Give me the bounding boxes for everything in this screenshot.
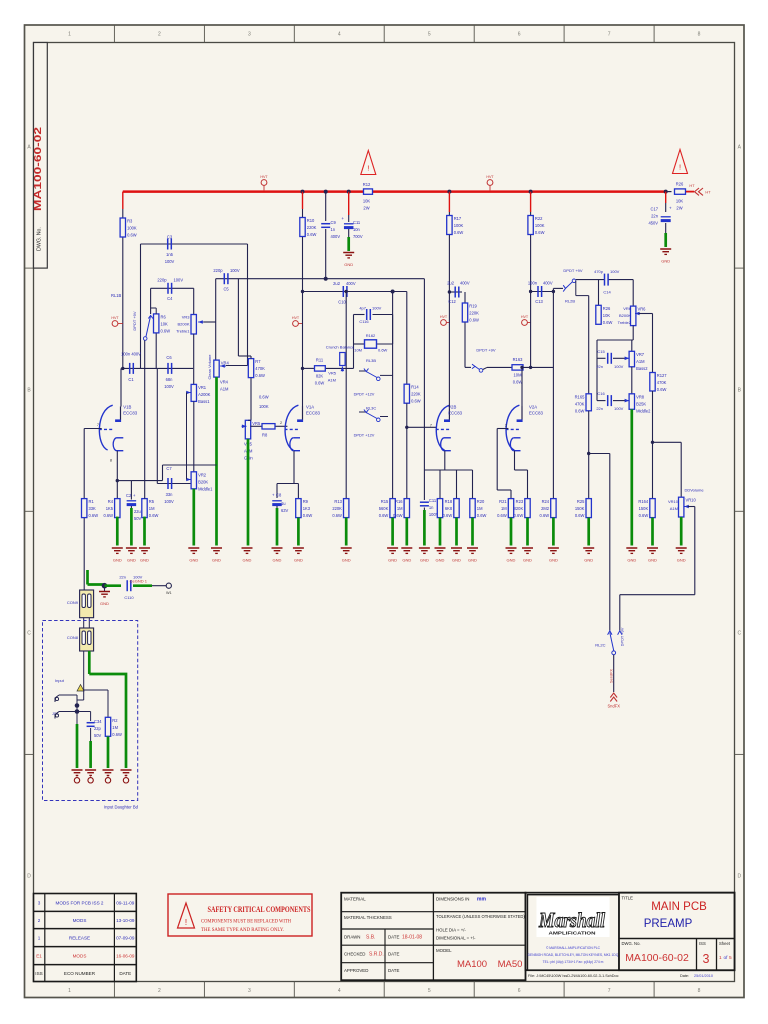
svg-text:C110: C110 xyxy=(124,595,134,600)
svg-text:470K: 470K xyxy=(255,366,265,371)
svg-text:0.6W: 0.6W xyxy=(469,318,479,323)
svg-text:220K: 220K xyxy=(469,311,479,316)
svg-text:B25K: B25K xyxy=(636,401,646,406)
wires CON9 to CON8 xyxy=(83,618,85,628)
svg-text:Date:: Date: xyxy=(680,974,689,978)
svg-text:C11: C11 xyxy=(353,220,361,225)
svg-text:GND: GND xyxy=(523,558,532,563)
wire: grid rail x=84.2 down to input connector xyxy=(83,429,85,499)
wire: C6 line y=368.4 xyxy=(157,367,193,369)
svg-text:3: 3 xyxy=(248,988,251,994)
svg-text:7: 7 xyxy=(608,988,611,994)
svg-text:1: 1 xyxy=(719,955,722,961)
wire: C13 line y=291.5 xyxy=(529,290,532,293)
resistor R20 1M 0.6W xyxy=(470,499,475,518)
svg-text:R9: R9 xyxy=(303,499,309,504)
svg-text:R5: R5 xyxy=(149,499,155,504)
svg-text:1M: 1M xyxy=(501,506,507,511)
svg-text:GND: GND xyxy=(677,558,686,563)
potentiometer VR7 A1M Bass2 xyxy=(629,351,634,367)
svg-text:Bass1: Bass1 xyxy=(198,399,210,404)
ground at CeGND node xyxy=(104,588,106,591)
svg-text:R7: R7 xyxy=(255,359,261,364)
svg-text:1: 1 xyxy=(68,31,71,37)
svg-text:VR10: VR10 xyxy=(668,499,679,504)
svg-text:S.B.: S.B. xyxy=(366,935,375,941)
svg-text:!: ! xyxy=(367,164,369,173)
resistor R15 560K 0.6W grid leak xyxy=(392,292,394,499)
red bus drop stubs xyxy=(122,192,124,209)
svg-text:10M: 10M xyxy=(514,373,523,378)
svg-text:100V: 100V xyxy=(174,278,184,283)
svg-text:33n: 33n xyxy=(166,492,174,497)
svg-text:6: 6 xyxy=(518,31,521,37)
green wire below R25 xyxy=(587,518,590,546)
svg-text:MATERIAL THICKNESS: MATERIAL THICKNESS xyxy=(344,915,392,920)
ground below R25 xyxy=(583,547,594,549)
svg-text:8: 8 xyxy=(110,459,112,463)
svg-text:B200K: B200K xyxy=(177,322,189,327)
svg-text:6: 6 xyxy=(518,988,521,994)
svg-text:PREAMP: PREAMP xyxy=(644,918,693,930)
grounds below V1B cathode parts xyxy=(112,547,123,549)
svg-text:16-06-09: 16-06-09 xyxy=(116,953,135,958)
svg-text:0.6W: 0.6W xyxy=(89,513,99,518)
svg-text:0.6W: 0.6W xyxy=(477,513,487,518)
svg-text:R127: R127 xyxy=(657,373,668,378)
DWG number sidebar box xyxy=(34,43,48,269)
svg-text:220K: 220K xyxy=(307,225,317,230)
svg-text:W1: W1 xyxy=(166,591,172,595)
svg-text:MODS: MODS xyxy=(73,953,87,958)
svg-text:GND: GND xyxy=(584,558,593,563)
triode V1A ECC83 xyxy=(285,405,298,450)
svg-text:DRAWN: DRAWN xyxy=(344,935,360,940)
svg-text:100K: 100K xyxy=(535,223,545,228)
resistor R17 100K 0.6W xyxy=(447,216,452,235)
svg-text:1u: 1u xyxy=(281,501,286,506)
svg-text:ISS: ISS xyxy=(699,941,706,946)
svg-text:MA100-60-02: MA100-60-02 xyxy=(625,952,689,964)
svg-text:GND: GND xyxy=(273,558,282,563)
svg-text:C17: C17 xyxy=(650,207,658,212)
svg-text:1K5: 1K5 xyxy=(106,506,114,511)
svg-text:560K: 560K xyxy=(379,506,389,511)
svg-text:DPDT +9V: DPDT +9V xyxy=(132,311,137,330)
svg-text:0.6W: 0.6W xyxy=(454,230,464,235)
wire: FX send from R165 node xyxy=(589,453,610,455)
svg-text:TOLERANCE (UNLESS OTHERWISE ST: TOLERANCE (UNLESS OTHERWISE STATED) xyxy=(436,914,525,919)
wire: V1A cathode network xyxy=(293,451,295,484)
svg-text:100n 400V: 100n 400V xyxy=(121,352,141,357)
svg-text:MODS: MODS xyxy=(73,918,87,923)
svg-text:RL3C: RL3C xyxy=(366,406,376,411)
svg-text:50V: 50V xyxy=(94,733,102,738)
svg-text:VR5: VR5 xyxy=(252,421,261,426)
svg-text:© MARSHALL AMPLIFICATION PLC: © MARSHALL AMPLIFICATION PLC xyxy=(546,946,601,950)
svg-text:C4: C4 xyxy=(167,296,173,301)
capacitor C1 100n 400V xyxy=(123,367,158,369)
wire: C5 line y=278.7 long mixer wire xyxy=(216,278,425,280)
green wire below VR5 xyxy=(247,439,250,546)
svg-text:S.R.D.: S.R.D. xyxy=(369,952,384,958)
svg-text:8: 8 xyxy=(698,988,701,994)
svg-text:VR6: VR6 xyxy=(623,306,632,311)
svg-text:HOLE DIA = +/-: HOLE DIA = +/- xyxy=(436,928,466,933)
svg-text:R4: R4 xyxy=(108,499,114,504)
svg-text:DPDT +12V: DPDT +12V xyxy=(354,392,375,397)
svg-text:DIMENSIONS IN: DIMENSIONS IN xyxy=(436,897,469,902)
svg-text:C13: C13 xyxy=(535,299,543,304)
svg-text:2u2: 2u2 xyxy=(447,281,455,286)
svg-text:400V: 400V xyxy=(543,281,553,286)
svg-text:CON8: CON8 xyxy=(67,635,79,640)
green wire to ground below C17 xyxy=(664,233,667,247)
svg-text:5: 5 xyxy=(428,31,431,37)
svg-text:470K: 470K xyxy=(575,401,585,406)
svg-text:7: 7 xyxy=(430,424,432,428)
svg-text:ISS: ISS xyxy=(35,971,42,976)
capacitor C3 1n5 100V xyxy=(167,239,169,250)
wire: V2B grid wire xyxy=(407,426,437,428)
resistor R5 1M 0.6W xyxy=(142,499,147,518)
svg-text:0.6W: 0.6W xyxy=(161,328,171,333)
green wire below R164 xyxy=(651,518,654,546)
svg-text:DATE: DATE xyxy=(119,971,131,976)
svg-text:C9: C9 xyxy=(331,220,337,225)
svg-text:MATERIAL: MATERIAL xyxy=(344,897,366,902)
svg-text:0.6W: 0.6W xyxy=(127,233,137,238)
svg-text:R165: R165 xyxy=(575,394,586,399)
svg-text:R1: R1 xyxy=(89,499,95,504)
triode V2A ECC83 xyxy=(506,405,519,450)
svg-text:0.6W: 0.6W xyxy=(443,513,453,518)
svg-text:C6: C6 xyxy=(166,355,172,360)
svg-text:DPDT +9V: DPDT +9V xyxy=(620,627,625,646)
svg-text:VR4: VR4 xyxy=(221,361,230,366)
svg-text:D: D xyxy=(737,874,741,880)
svg-text:2: 2 xyxy=(38,918,41,923)
svg-text:R14: R14 xyxy=(411,385,419,390)
svg-text:Marshall: Marshall xyxy=(538,908,605,932)
svg-text:ECC83: ECC83 xyxy=(123,410,137,415)
svg-text:GND: GND xyxy=(113,558,122,563)
capacitor C12 2u2 400V xyxy=(454,287,456,298)
svg-text:18-01-08: 18-01-08 xyxy=(402,935,422,941)
wire: C3 top coupling line y=244 xyxy=(141,243,248,245)
svg-text:4: 4 xyxy=(338,988,341,994)
connector CON8 xyxy=(80,628,94,651)
svg-text:10K: 10K xyxy=(363,199,371,204)
capacitor C5 220p 100V xyxy=(223,273,225,284)
revision table xyxy=(34,894,137,982)
svg-text:COMPONENTS MUST BE REPLACED WI: COMPONENTS MUST BE REPLACED WITH xyxy=(201,919,291,925)
resistor R9 1K3 0.6W xyxy=(296,499,301,518)
capacitor C110 22n 100V xyxy=(126,580,128,591)
svg-text:0.6W: 0.6W xyxy=(307,232,317,237)
svg-text:100V: 100V xyxy=(165,259,175,264)
svg-text:Treble2: Treble2 xyxy=(618,320,632,325)
svg-text:HVT: HVT xyxy=(486,175,494,179)
ground below R164 xyxy=(647,547,658,549)
svg-text:TEL: phl (44p) 1734+1 Fax: p(4: TEL: phl (44p) 1734+1 Fax: p(44p) 274 m xyxy=(543,960,604,964)
svg-text:1M: 1M xyxy=(149,506,155,511)
svg-text:4p7: 4p7 xyxy=(359,306,366,311)
svg-text:R22: R22 xyxy=(535,216,543,221)
svg-text:Input: Input xyxy=(55,678,65,683)
svg-text:22u: 22u xyxy=(134,509,141,514)
resistor R26 (bus end, 10K 2W) xyxy=(675,189,686,194)
svg-text:100V: 100V xyxy=(372,306,382,311)
svg-text:0.6W: 0.6W xyxy=(639,513,649,518)
svg-text:2u2: 2u2 xyxy=(333,281,341,286)
svg-text:C2: C2 xyxy=(126,493,132,498)
svg-text:DPDT +9V: DPDT +9V xyxy=(476,348,495,353)
wire: C10 coupling line y=291.5 xyxy=(303,291,407,293)
file path strip xyxy=(526,969,735,971)
resistor R117 1M8 0.6W xyxy=(437,499,442,518)
svg-text:400V: 400V xyxy=(331,234,341,239)
resistor R164 150K 0.6W xyxy=(650,499,655,518)
svg-text:!: ! xyxy=(679,163,681,172)
svg-text:22n: 22n xyxy=(119,575,126,580)
resistor R13 220K 0.6W xyxy=(344,499,349,518)
capacitor C13 100n 400V xyxy=(537,286,539,297)
grounds below V2B network xyxy=(387,547,398,549)
safety critical components box xyxy=(168,894,312,936)
resistor R16 1M 0.6W xyxy=(404,499,409,518)
svg-text:Crunch Balance: Crunch Balance xyxy=(326,345,355,350)
resistor R22 100K 0.6W xyxy=(530,212,532,216)
svg-text:R2: R2 xyxy=(112,718,118,723)
resistor R12 (bus, 10K 2W) xyxy=(364,189,373,194)
svg-text:R10: R10 xyxy=(307,218,315,223)
resistor R127 470K 0.6W xyxy=(650,373,655,392)
svg-text:B20K: B20K xyxy=(198,479,208,484)
resistor R10 220K 0.6W xyxy=(302,209,304,218)
svg-text:150K: 150K xyxy=(575,506,585,511)
svg-text:0.6W: 0.6W xyxy=(411,399,421,404)
svg-text:100K: 100K xyxy=(454,223,464,228)
svg-text:GND: GND xyxy=(420,558,429,563)
svg-text:820K: 820K xyxy=(514,506,524,511)
svg-text:0.6W: 0.6W xyxy=(255,373,265,378)
wire: V1A plate rail xyxy=(302,292,304,408)
grounds below V1A cathode xyxy=(272,547,283,549)
svg-text:100V: 100V xyxy=(614,406,624,411)
ground below VR10 xyxy=(676,547,687,549)
green wires to input board earths xyxy=(76,724,79,768)
svg-text:1M: 1M xyxy=(112,725,118,730)
green wire below R13 xyxy=(345,518,348,546)
svg-text:100V: 100V xyxy=(164,384,174,389)
svg-text:V1B: V1B xyxy=(123,405,131,410)
svg-text:0.6W: 0.6W xyxy=(378,348,388,353)
svg-text:R162: R162 xyxy=(366,333,376,338)
svg-text:GND: GND xyxy=(127,558,136,563)
resistor R25 150K 0.6W xyxy=(588,411,590,454)
resistor R23 820K 0.6W xyxy=(525,499,530,518)
ground below C11 xyxy=(343,252,354,254)
bus junction dots xyxy=(301,190,305,194)
resistor R21 1M 0.6W xyxy=(508,499,513,518)
svg-text:R163: R163 xyxy=(513,357,524,362)
svg-text:0.6W: 0.6W xyxy=(379,513,389,518)
margin column/row tick marks xyxy=(113,25,115,43)
svg-text:7: 7 xyxy=(608,31,611,37)
resistor R165 470K 0.6W xyxy=(586,394,591,411)
wire: FX send output xyxy=(613,655,615,692)
svg-text:1M: 1M xyxy=(397,506,403,511)
capacitor C7 33n 100V xyxy=(167,478,169,489)
resistor R18 6K8 0.6W xyxy=(454,499,459,518)
svg-text:82K: 82K xyxy=(316,374,324,379)
ground below VR8 xyxy=(626,547,637,549)
resistor R14 220K 0.6W xyxy=(406,292,408,385)
svg-text:0.6W: 0.6W xyxy=(514,513,524,518)
svg-text:GND: GND xyxy=(661,259,670,264)
svg-text:0.6W: 0.6W xyxy=(535,230,545,235)
svg-text:400V: 400V xyxy=(460,281,470,286)
svg-text:50V: 50V xyxy=(134,516,142,521)
svg-text:GND: GND xyxy=(342,558,351,563)
green wires below V2A network xyxy=(510,518,513,546)
svg-text:5: 5 xyxy=(729,955,732,961)
potentiometer VR3 B200K Treble1 xyxy=(193,288,195,314)
capacitor C11 10n 700V (electrolytic) xyxy=(348,215,350,222)
svg-text:MA100: MA100 xyxy=(457,959,487,970)
svg-text:RL2B: RL2B xyxy=(565,299,575,304)
svg-text:R16: R16 xyxy=(395,499,403,504)
capacitor C4 220p 100V xyxy=(167,283,169,294)
green wire CON8 pin2 to earth xyxy=(88,651,91,674)
wire: x=553.4 rail down to R24 xyxy=(552,292,554,499)
svg-text:GND: GND xyxy=(549,558,558,563)
svg-text:CON9: CON9 xyxy=(67,600,79,605)
svg-text:A1M: A1M xyxy=(670,506,678,511)
svg-text:File: J:\MC45\100W IssD-2\MA1: File: J:\MC45\100W IssD-2\MA100-60-02-3-… xyxy=(528,974,619,978)
svg-text:GND: GND xyxy=(648,558,657,563)
input daughter board dashed outline xyxy=(43,621,138,801)
marshall logo block xyxy=(526,893,735,971)
svg-text:2W: 2W xyxy=(363,206,369,211)
safety warning triangle above R12 xyxy=(361,151,376,175)
grounds below V2A network xyxy=(506,547,517,549)
svg-text:3: 3 xyxy=(38,901,41,906)
capacitor C9 1n 400V xyxy=(325,192,327,221)
wire: V2B cathode network xyxy=(444,451,446,470)
wire: tone2 mid bracket xyxy=(632,326,634,340)
ground below VR4 xyxy=(211,547,222,549)
small warning triangle near input xyxy=(77,685,84,692)
svg-text:RL2C: RL2C xyxy=(595,643,605,648)
svg-text:DATE: DATE xyxy=(388,952,399,957)
svg-text:DATE: DATE xyxy=(388,968,399,973)
svg-text:MA100-60-02: MA100-60-02 xyxy=(32,127,44,211)
svg-text:1n: 1n xyxy=(429,505,434,510)
svg-text:Sheet: Sheet xyxy=(719,941,731,946)
svg-text:GND: GND xyxy=(452,558,461,563)
svg-text:2: 2 xyxy=(280,421,282,425)
svg-text:MODS FOR PCB ISS 2: MODS FOR PCB ISS 2 xyxy=(56,901,104,906)
resistor R4 1K5 0.6W xyxy=(115,499,120,518)
svg-text:VR6: VR6 xyxy=(638,307,647,312)
svg-text:mm: mm xyxy=(477,897,486,903)
svg-text:100n: 100n xyxy=(528,281,538,286)
svg-text:R26: R26 xyxy=(603,306,611,311)
resistor R2 1M 0.6W xyxy=(105,717,110,736)
wire: tone2 top line y=279.6 xyxy=(576,279,605,281)
svg-text:GND: GND xyxy=(402,558,411,563)
svg-text:150K: 150K xyxy=(639,506,649,511)
svg-text:0.6W: 0.6W xyxy=(149,513,159,518)
svg-text:GND: GND xyxy=(388,558,397,563)
svg-text:VR7: VR7 xyxy=(636,352,645,357)
svg-text:09-11-09: 09-11-09 xyxy=(116,901,134,906)
resistor R24 2M2 0.6W xyxy=(551,499,556,518)
svg-text:22p: 22p xyxy=(94,726,102,731)
svg-text:C5: C5 xyxy=(223,287,229,292)
svg-text:22n: 22n xyxy=(651,214,659,219)
svg-text:C14: C14 xyxy=(603,290,611,295)
svg-text:V1A: V1A xyxy=(306,405,314,410)
svg-text:R11: R11 xyxy=(316,358,324,363)
svg-text:07-09-09: 07-09-09 xyxy=(116,936,135,941)
svg-text:R21: R21 xyxy=(499,499,507,504)
svg-text:10M: 10M xyxy=(354,348,362,353)
svg-text:2W: 2W xyxy=(676,206,682,211)
svg-text:0.6W: 0.6W xyxy=(315,381,325,386)
svg-text:E1: E1 xyxy=(36,953,42,958)
svg-text:4: 4 xyxy=(338,31,341,37)
svg-text:2: 2 xyxy=(158,988,161,994)
svg-text:GND: GND xyxy=(344,262,353,267)
potentiometer VR6 B200K Treble2 xyxy=(632,280,634,307)
svg-text:DPDT +12V: DPDT +12V xyxy=(354,433,375,438)
svg-text:2: 2 xyxy=(158,31,161,37)
wire: C4 line y=288.3 xyxy=(151,287,194,289)
green wire below VR4 xyxy=(215,377,218,545)
svg-text:A1M: A1M xyxy=(636,359,645,364)
crunch network bracket C116 R162 xyxy=(354,314,365,316)
svg-text:GND: GND xyxy=(140,558,149,563)
svg-text:220K: 220K xyxy=(332,506,342,511)
svg-text:R164: R164 xyxy=(638,499,649,504)
svg-text:100V: 100V xyxy=(230,268,240,273)
svg-text:0.6W: 0.6W xyxy=(575,513,585,518)
svg-text:1n5: 1n5 xyxy=(166,252,174,257)
svg-text:C15: C15 xyxy=(597,349,605,354)
material and drawing info table xyxy=(341,893,525,981)
svg-text:C12: C12 xyxy=(448,299,456,304)
svg-text:GND: GND xyxy=(436,558,445,563)
svg-text:VR1: VR1 xyxy=(198,385,207,390)
svg-text:Middle2: Middle2 xyxy=(636,408,651,413)
resistor R1 33K 0.6W xyxy=(82,499,87,518)
svg-text:RL3B: RL3B xyxy=(366,358,376,363)
svg-text:C8: C8 xyxy=(276,493,282,498)
svg-text:R3: R3 xyxy=(127,219,133,224)
capacitor C17 22n 450V (electrolytic) xyxy=(665,203,667,212)
svg-text:DWG. No.: DWG. No. xyxy=(622,941,641,946)
svg-text:VR8: VR8 xyxy=(636,394,645,399)
resistor R162 10M 0.6W xyxy=(353,315,355,369)
svg-text:0.6W: 0.6W xyxy=(112,732,122,737)
ground below VR5 xyxy=(242,547,253,549)
svg-text:C7: C7 xyxy=(166,466,172,471)
svg-text:ECO NUMBER: ECO NUMBER xyxy=(64,971,96,976)
svg-text:HVT: HVT xyxy=(440,315,448,319)
